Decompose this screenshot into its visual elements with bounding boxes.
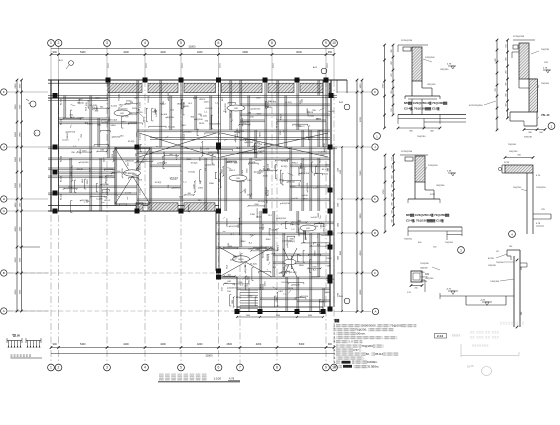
svg-text:900: 900 — [53, 51, 58, 54]
svg-text:φ10@200: φ10@200 — [306, 182, 309, 193]
svg-text:KL3(2): KL3(2) — [290, 272, 297, 274]
wing left wall — [215, 211, 217, 271]
detail marker top right — [321, 68, 327, 74]
svg-text:▓▓: ▓▓ — [335, 319, 340, 323]
svg-text:2C20@230: 2C20@230 — [513, 36, 525, 38]
svg-text:K: K — [374, 90, 376, 94]
top grid bubbles — [48, 40, 55, 47]
svg-text:1800: 1800 — [132, 174, 138, 176]
svg-text:φ8@150: φ8@150 — [286, 181, 295, 184]
detail 4 hatched beam — [505, 165, 533, 173]
svg-text:70@230: 70@230 — [524, 137, 533, 139]
left grid bubbles — [1, 89, 7, 95]
svg-text:KL1(3): KL1(3) — [307, 116, 314, 118]
left dimension chains — [16, 80, 18, 312]
svg-text:φ8@200: φ8@200 — [106, 187, 109, 196]
ellipse label 4 — [300, 225, 316, 231]
svg-text:φ10@150: φ10@150 — [227, 287, 238, 290]
svg-text:1200: 1200 — [250, 214, 256, 216]
svg-text:H: H — [3, 197, 5, 201]
svg-text:1500: 1500 — [201, 147, 203, 151]
svg-text:4200: 4200 — [197, 51, 203, 54]
svg-text:1C8@250: 1C8@250 — [536, 187, 546, 189]
svg-text:C2-4▓, 70@150▓▓▓ C15▓: C2-4▓, 70@150▓▓▓ C15▓ — [404, 107, 440, 111]
svg-text:M5▓▓ C20@250×4▓ 70@200▓▓: M5▓▓ C20@250×4▓ 70@200▓▓ — [404, 101, 448, 105]
svg-text:KL3(2): KL3(2) — [281, 160, 288, 162]
detail 3 small column KZ1 — [411, 271, 422, 282]
svg-text:900: 900 — [130, 102, 133, 104]
detail 6 wall element — [513, 256, 515, 327]
svg-text:KL1(3): KL1(3) — [77, 103, 84, 105]
detail 4 section circle — [509, 231, 516, 238]
svg-text:A-A: A-A — [339, 101, 343, 104]
svg-text:1800: 1800 — [265, 239, 271, 241]
svg-text:2C18: 2C18 — [327, 63, 329, 68]
detail 1 bottom dims — [398, 127, 440, 129]
svg-text:3300: 3300 — [236, 297, 242, 299]
svg-text:2100: 2100 — [242, 123, 246, 125]
bottom dimension chain — [51, 347, 334, 349]
svg-text:h=100: h=100 — [170, 179, 177, 181]
svg-text:1800: 1800 — [119, 105, 125, 107]
svg-text:WKL2: WKL2 — [289, 186, 296, 188]
detail 4 left end cap — [502, 164, 505, 166]
svg-text:70@150: 70@150 — [420, 281, 427, 283]
svg-text:2Φ20: 2Φ20 — [316, 118, 322, 121]
svg-text:WKL2: WKL2 — [299, 126, 306, 128]
wing horizontal beams — [216, 232, 334, 234]
svg-text:KL3(2): KL3(2) — [119, 94, 121, 101]
detail 6 recess — [465, 296, 467, 305]
svg-text:h=120: h=120 — [62, 140, 69, 142]
plan leader marks — [240, 190, 245, 194]
svg-text:h=100: h=100 — [302, 195, 309, 197]
svg-text:1300: 1300 — [338, 203, 340, 207]
svg-text:600: 600 — [238, 225, 240, 228]
svg-text:1200: 1200 — [244, 285, 250, 287]
svg-text:4.78: 4.78 — [229, 376, 235, 380]
svg-text:KL4(2): KL4(2) — [268, 189, 270, 196]
svg-text:450: 450 — [392, 175, 394, 178]
svg-text:C8@200: C8@200 — [440, 69, 449, 71]
svg-text:3300: 3300 — [15, 104, 17, 110]
svg-text:C8@200: C8@200 — [436, 185, 445, 187]
svg-text:70@230: 70@230 — [417, 136, 426, 138]
svg-text:h=100: h=100 — [319, 151, 326, 153]
svg-text:▒▒▒▒▒▒▒▒▒: ▒▒▒▒▒▒▒▒▒ — [500, 321, 525, 325]
svg-text:WKL2: WKL2 — [218, 147, 220, 154]
svg-text:6000: 6000 — [242, 51, 248, 54]
svg-text:φ8@200: φ8@200 — [100, 183, 109, 186]
svg-text:900: 900 — [53, 343, 58, 346]
detail 6 level line — [440, 295, 514, 297]
svg-text:1C8@200: 1C8@200 — [425, 57, 435, 59]
detail 2 bottom outline — [510, 111, 529, 113]
svg-text:3300: 3300 — [186, 159, 192, 161]
svg-text:KL4(2): KL4(2) — [268, 101, 270, 108]
svg-text:WKL2: WKL2 — [199, 99, 206, 101]
svg-text:F: F — [374, 197, 376, 201]
svg-text:600: 600 — [317, 244, 320, 246]
detail 4 top dim — [505, 157, 533, 159]
svg-text:1800: 1800 — [241, 241, 247, 243]
svg-text:h=120: h=120 — [96, 198, 103, 200]
svg-text:2Φ20: 2Φ20 — [256, 215, 262, 218]
svg-text:2400: 2400 — [15, 83, 17, 89]
rebar marks — [162, 161, 164, 168]
detail marker circle A — [30, 101, 36, 107]
svg-text:φ8@200: φ8@200 — [264, 143, 273, 146]
svg-text:600: 600 — [117, 171, 120, 173]
svg-text:2100: 2100 — [68, 187, 72, 189]
svg-text:140: 140 — [509, 246, 512, 248]
svg-text:h=120: h=120 — [125, 193, 132, 195]
svg-text:4000: 4000 — [340, 251, 342, 255]
detail 2 bottom dims — [524, 129, 545, 131]
svg-text:2Φ20: 2Φ20 — [259, 131, 262, 137]
svg-text:KL1(3): KL1(3) — [267, 254, 269, 261]
svg-text:▒▒▒▒▒▒▒: ▒▒▒▒▒▒▒ — [472, 344, 489, 347]
detail 4 wall verticals — [526, 173, 528, 234]
svg-text:A-A: A-A — [339, 295, 343, 298]
detail 3 outer dim line — [384, 155, 386, 232]
svg-text:3300: 3300 — [324, 292, 330, 294]
svg-text:φ8@200: φ8@200 — [165, 116, 174, 119]
svg-text:150: 150 — [392, 157, 394, 160]
svg-text:A#X: A#X — [59, 59, 63, 62]
svg-text:10: 10 — [332, 41, 336, 45]
svg-text:φ8@150: φ8@150 — [241, 117, 244, 126]
svg-text:2100: 2100 — [70, 117, 74, 119]
svg-text:4200: 4200 — [123, 51, 129, 54]
svg-text:WKL2: WKL2 — [292, 163, 299, 165]
stair treads — [240, 289, 258, 291]
svg-text:2C18: 2C18 — [108, 63, 110, 68]
svg-text:2C20@230: 2C20@230 — [401, 151, 413, 153]
svg-text:5: 5 — [180, 41, 182, 45]
svg-text:▒▒▒▒▒▒▒: ▒▒▒▒▒▒▒ — [11, 354, 33, 358]
mini dimension strings — [164, 155, 178, 157]
detail marker wing right — [344, 298, 350, 304]
svg-text:KL1(3): KL1(3) — [249, 162, 256, 164]
detail marker right mid — [344, 104, 350, 110]
wing vertical beams — [259, 211, 261, 312]
svg-text:1800: 1800 — [209, 183, 215, 185]
svg-text:1C8@200: 1C8@200 — [428, 165, 438, 167]
svg-text:φ10@200: φ10@200 — [134, 161, 145, 164]
detail 3 top ties — [400, 154, 428, 156]
svg-text:C8@150: C8@150 — [427, 84, 436, 86]
svg-text:φ8@150: φ8@150 — [171, 187, 180, 190]
svg-text:φ10@200: φ10@200 — [250, 108, 261, 111]
detail marker top left — [69, 61, 74, 66]
outer wall top edge — [48, 79, 347, 81]
svg-text:KL1(3): KL1(3) — [90, 105, 97, 107]
svg-text:4200: 4200 — [15, 289, 17, 295]
svg-text:300: 300 — [392, 210, 394, 213]
svg-text:1500: 1500 — [338, 168, 340, 172]
svg-text:600: 600 — [169, 154, 172, 156]
svg-text:h=120: h=120 — [328, 111, 335, 113]
svg-text:φ8@200: φ8@200 — [311, 275, 320, 278]
svg-text:1500: 1500 — [255, 249, 259, 251]
svg-text:φ8@150: φ8@150 — [301, 242, 310, 245]
svg-text:300: 300 — [392, 202, 394, 205]
svg-text:3: 3 — [106, 41, 108, 45]
svg-text:-4.75: -4.75 — [446, 289, 452, 291]
svg-text:WKL2: WKL2 — [280, 113, 282, 120]
column squares — [106, 78, 111, 83]
svg-text:h=120: h=120 — [271, 229, 278, 231]
svg-text:900: 900 — [328, 343, 333, 346]
svg-text:5400: 5400 — [80, 51, 86, 54]
svg-text:3300: 3300 — [256, 114, 262, 116]
svg-text:600: 600 — [135, 153, 137, 156]
right row A bubble — [372, 308, 378, 314]
detail 2 left outline — [518, 79, 520, 88]
svg-text:KL3(2): KL3(2) — [209, 124, 216, 126]
svg-text:A#X: A#X — [313, 66, 318, 69]
svg-text:10.░▒: 10.░▒ — [334, 364, 343, 368]
svg-text:φ10@200: φ10@200 — [205, 164, 216, 167]
svg-text:KL1(3): KL1(3) — [61, 193, 63, 200]
horizontal grid row B dashed across open area — [8, 272, 218, 274]
svg-text:▒▒▒▒▒▒▒▒: ▒▒▒▒▒▒▒▒ — [159, 373, 208, 381]
bottom grid bubbles — [48, 364, 55, 371]
top overall dimension — [51, 48, 334, 50]
vertical beams upper band — [89, 96, 91, 212]
svg-text:8: 8 — [276, 366, 278, 370]
svg-text:φ8@200: φ8@200 — [244, 141, 253, 144]
svg-text:600: 600 — [304, 231, 306, 234]
svg-text:70@250: 70@250 — [513, 187, 522, 189]
svg-text:φ10@200: φ10@200 — [276, 217, 287, 220]
svg-text:1800: 1800 — [111, 125, 117, 127]
svg-text:2Φ20: 2Φ20 — [143, 116, 146, 122]
svg-text:2600: 2600 — [226, 343, 232, 346]
svg-text:450: 450 — [392, 193, 394, 196]
svg-text:φ10@200: φ10@200 — [79, 161, 90, 164]
svg-text:600: 600 — [271, 248, 274, 250]
svg-text:3300: 3300 — [216, 123, 222, 125]
svg-text:KL1(3): KL1(3) — [61, 98, 63, 105]
svg-text:KL1(3): KL1(3) — [282, 282, 289, 284]
svg-text:KL1(3): KL1(3) — [276, 121, 278, 128]
svg-text:1800: 1800 — [255, 142, 261, 144]
wing bottom dim chain — [237, 316, 323, 318]
svg-text:KL3(2): KL3(2) — [111, 120, 118, 122]
svg-text:A: A — [3, 309, 5, 313]
detail 1 outer dim line — [384, 45, 386, 128]
open area divider line — [19, 246, 40, 248]
svg-text:6200: 6200 — [360, 116, 362, 122]
svg-text:1: 1 — [50, 366, 52, 370]
svg-text:1200: 1200 — [95, 97, 101, 99]
svg-text:φ10@150: φ10@150 — [280, 202, 291, 205]
svg-text:1500: 1500 — [100, 150, 104, 152]
svg-text:h=120: h=120 — [292, 198, 299, 200]
svg-text:WKL2: WKL2 — [160, 104, 167, 106]
ellipse label 2 — [229, 175, 247, 181]
right outer wall upper — [322, 80, 324, 147]
detail 2 outer dim line — [496, 40, 498, 130]
svg-text:70@200: 70@200 — [508, 144, 517, 146]
svg-text:70@200: 70@200 — [541, 83, 550, 85]
stamp bracket lines — [460, 344, 462, 357]
svg-text:2100: 2100 — [276, 297, 278, 301]
svg-text:1:100: 1:100 — [214, 376, 222, 380]
ellipse label 1 — [227, 105, 245, 111]
svg-text:-4.45: -4.45 — [480, 300, 486, 302]
svg-text:░▒▒░▒▒░0.300m.: ░▒▒░▒▒░0.300m. — [354, 364, 380, 368]
svg-text:2Φ20: 2Φ20 — [199, 122, 205, 125]
svg-text:5C25: 5C25 — [430, 194, 436, 196]
svg-text:2100: 2100 — [163, 156, 165, 160]
svg-text:WKL2: WKL2 — [229, 170, 236, 172]
svg-text:h=120: h=120 — [101, 122, 108, 124]
svg-text:4200: 4200 — [197, 343, 203, 346]
detail 2 hatched column lower — [529, 79, 538, 112]
svg-text:2Φ20: 2Φ20 — [87, 123, 93, 126]
svg-text:4200: 4200 — [276, 315, 280, 317]
detail 1 column outline lower — [411, 81, 413, 96]
svg-text:φ10@150: φ10@150 — [65, 131, 76, 134]
svg-text:1800: 1800 — [198, 187, 204, 189]
svg-text:4000: 4000 — [15, 226, 17, 232]
svg-text:h=120: h=120 — [327, 279, 334, 281]
svg-text:KL1(3): KL1(3) — [306, 137, 313, 139]
corridor flat cross mid — [139, 133, 216, 157]
svg-text:2.4.0: 2.4.0 — [437, 334, 444, 338]
svg-text:h=120: h=120 — [255, 160, 262, 162]
svg-text:▒▒-08: ▒▒-08 — [467, 365, 474, 368]
svg-text:KL3(2): KL3(2) — [191, 162, 198, 164]
svg-text:250: 250 — [414, 288, 417, 290]
svg-text:600: 600 — [229, 246, 232, 248]
svg-text:2: 2 — [58, 41, 60, 45]
svg-text:2600: 2600 — [246, 315, 250, 317]
svg-text:900: 900 — [100, 107, 103, 109]
svg-text:4200: 4200 — [256, 343, 262, 346]
svg-text:7: 7 — [239, 366, 241, 370]
svg-text:2100: 2100 — [222, 169, 224, 173]
svg-text:5900: 5900 — [360, 170, 362, 176]
svg-text:3000: 3000 — [15, 182, 17, 188]
svg-text:600: 600 — [298, 220, 301, 222]
svg-text:2C18: 2C18 — [220, 63, 222, 68]
svg-text:φ8@200: φ8@200 — [183, 130, 192, 133]
svg-text:300: 300 — [392, 165, 394, 168]
svg-text:KL6(2): KL6(2) — [184, 133, 186, 140]
svg-text:1800: 1800 — [143, 160, 147, 162]
stamp circle — [482, 367, 492, 376]
svg-text:φ8@200: φ8@200 — [194, 118, 203, 121]
svg-text:2800: 2800 — [15, 131, 17, 137]
svg-text:2Φ20: 2Φ20 — [323, 172, 329, 175]
bottom overall dimension — [51, 353, 334, 355]
svg-text:1200: 1200 — [70, 172, 72, 176]
detail 1 top ties — [398, 44, 428, 46]
svg-text:1200: 1200 — [204, 101, 210, 103]
svg-text:KL3(2): KL3(2) — [285, 102, 292, 104]
ellipse label 3 — [114, 110, 130, 116]
svg-text:2C18: 2C18 — [182, 63, 184, 68]
wing right inner dim chain — [341, 147, 343, 312]
right grid bubbles — [372, 89, 378, 95]
svg-text:4: 4 — [144, 366, 146, 370]
svg-text:8: 8 — [271, 41, 273, 45]
svg-text:WKL2: WKL2 — [301, 162, 303, 169]
svg-text:1200: 1200 — [320, 154, 326, 156]
svg-text:h=100: h=100 — [234, 132, 241, 134]
svg-text:70@200: 70@200 — [496, 262, 504, 264]
detail 1 level mark — [448, 65, 456, 67]
svg-text:3300: 3300 — [303, 199, 309, 201]
svg-text:WKL2: WKL2 — [104, 200, 111, 202]
svg-text:3300: 3300 — [263, 175, 269, 177]
svg-text:7C0@200: 7C0@200 — [420, 263, 429, 265]
row A right stub with bubble — [334, 311, 371, 313]
svg-text:M5▓▓ C20@250×4▓ 70@250▓▓: M5▓▓ C20@250×4▓ 70@250▓▓ — [406, 213, 450, 217]
horizontal beams upper band — [48, 95, 337, 97]
svg-text:1800: 1800 — [279, 180, 285, 182]
left small detail section bars — [7, 340, 22, 342]
detail 3 section circle — [458, 247, 465, 254]
svg-text:4: 4 — [144, 41, 146, 45]
svg-text:1500: 1500 — [230, 114, 232, 118]
detail 6 level mark 4.45 — [482, 301, 492, 303]
vertical grid lines — [50, 47, 52, 81]
svg-text:6: 6 — [218, 41, 220, 45]
svg-text:2Φ20: 2Φ20 — [326, 257, 332, 260]
svg-text:KL1(3): KL1(3) — [61, 118, 63, 125]
narrow cross bay 3 — [283, 248, 297, 277]
detail marker circle B — [34, 130, 40, 136]
svg-text:φ8@150: φ8@150 — [125, 159, 134, 162]
svg-text:φ8@200: φ8@200 — [291, 283, 300, 286]
svg-text:3300: 3300 — [87, 179, 89, 185]
svg-text:C10@200: C10@200 — [490, 281, 500, 283]
svg-text:C8@130: C8@130 — [420, 277, 428, 279]
svg-text:▒▒ ▒▒▒ ▒▒ ▒▒▒: ▒▒ ▒▒▒ ▒▒ ▒▒▒ — [470, 336, 499, 339]
svg-text:1.50: 1.50 — [15, 334, 21, 338]
svg-text:1800: 1800 — [245, 188, 247, 194]
svg-text:1800: 1800 — [299, 265, 305, 267]
svg-text:φ8@150: φ8@150 — [234, 133, 237, 142]
detail 2 inner dim line — [507, 40, 509, 118]
svg-text:1C20: 1C20 — [420, 272, 425, 274]
svg-text:1500: 1500 — [82, 150, 86, 152]
svg-text:1200: 1200 — [256, 98, 262, 100]
svg-text:1800: 1800 — [319, 301, 325, 303]
svg-text:C2-4▓, 70@150▓▓▓▓ C15▓: C2-4▓, 70@150▓▓▓▓ C15▓ — [406, 219, 444, 223]
svg-text:φ10@150: φ10@150 — [299, 172, 310, 175]
svg-text:4C25/70@250: 4C25/70@250 — [469, 105, 483, 107]
svg-text:A: A — [374, 310, 376, 314]
svg-text:KL1(3): KL1(3) — [258, 201, 265, 203]
right dimension chains — [356, 80, 358, 312]
stairwell cross bay 1 — [115, 148, 150, 204]
svg-text:h=120: h=120 — [203, 149, 210, 151]
svg-text:2Φ20: 2Φ20 — [314, 250, 317, 256]
svg-text:L-2(2): L-2(2) — [140, 102, 142, 108]
svg-text:KL8(5): KL8(5) — [263, 223, 265, 230]
svg-text:h=100: h=100 — [270, 101, 277, 103]
svg-text:4200: 4200 — [160, 51, 166, 54]
svg-text:KL8(5): KL8(5) — [263, 283, 265, 290]
svg-text:▒▒▒▒: ▒▒▒▒ — [452, 334, 461, 337]
svg-text:9: 9 — [325, 366, 327, 370]
